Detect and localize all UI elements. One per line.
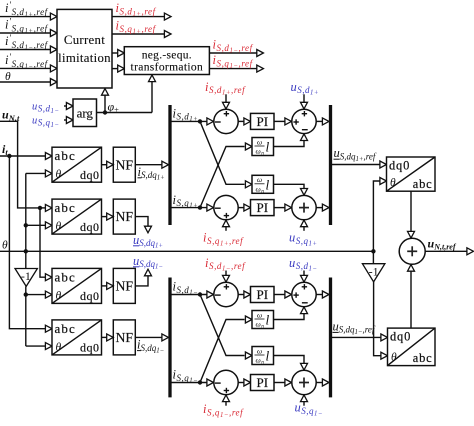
svg-text:NF: NF <box>115 330 133 345</box>
svg-text:NF: NF <box>115 209 133 224</box>
svg-text:ω: ω <box>257 175 262 184</box>
svg-text:ω: ω <box>256 320 261 329</box>
svg-text:abc: abc <box>55 269 76 284</box>
svg-text:neg.-sequ.: neg.-sequ. <box>142 50 192 62</box>
svg-text:NF: NF <box>115 157 133 172</box>
svg-text:abc: abc <box>55 321 76 336</box>
svg-text:n: n <box>261 324 264 330</box>
svg-text:θ: θ <box>56 290 62 302</box>
svg-text:abc: abc <box>55 200 76 215</box>
svg-text:abc: abc <box>413 351 433 365</box>
svg-text:θ: θ <box>390 177 396 189</box>
svg-text:θ: θ <box>2 239 8 251</box>
svg-text:dq0: dq0 <box>80 341 100 355</box>
svg-text:ω: ω <box>257 310 262 319</box>
svg-text:arg: arg <box>77 105 94 120</box>
svg-text:PI: PI <box>256 287 268 302</box>
svg-text:transformation: transformation <box>131 62 204 74</box>
svg-text:l: l <box>266 313 270 328</box>
svg-text:ω: ω <box>256 184 261 193</box>
svg-text:n: n <box>261 151 264 157</box>
svg-text:dq0: dq0 <box>80 168 100 182</box>
svg-text:θ: θ <box>56 221 62 233</box>
svg-text:n: n <box>261 360 264 366</box>
svg-text:ω: ω <box>257 137 262 146</box>
svg-text:-1: -1 <box>21 269 31 283</box>
svg-text:θ: θ <box>56 169 62 181</box>
svg-text:ω: ω <box>257 346 262 355</box>
svg-text:dq0: dq0 <box>389 159 410 173</box>
svg-text:l: l <box>266 177 270 192</box>
svg-text:limitation: limitation <box>58 51 111 65</box>
svg-text:Current: Current <box>64 33 105 47</box>
svg-text:l: l <box>266 349 270 364</box>
svg-text:PI: PI <box>256 114 268 129</box>
svg-text:θ: θ <box>56 341 62 353</box>
svg-text:abc: abc <box>413 177 433 191</box>
svg-text:abc: abc <box>55 148 76 163</box>
svg-text:θ: θ <box>391 351 397 363</box>
svg-text:dq0: dq0 <box>390 330 411 344</box>
svg-text:θ: θ <box>5 71 11 83</box>
svg-text:-1: -1 <box>369 264 379 278</box>
svg-text:NF: NF <box>115 279 133 294</box>
svg-text:dq0: dq0 <box>80 289 100 303</box>
svg-text:PI: PI <box>256 375 268 390</box>
svg-text:ω: ω <box>256 356 261 365</box>
svg-text:n: n <box>261 189 264 195</box>
svg-text:PI: PI <box>256 200 268 215</box>
svg-text:l: l <box>266 140 270 155</box>
svg-text:ω: ω <box>256 147 261 156</box>
svg-text:dq0: dq0 <box>80 220 100 234</box>
